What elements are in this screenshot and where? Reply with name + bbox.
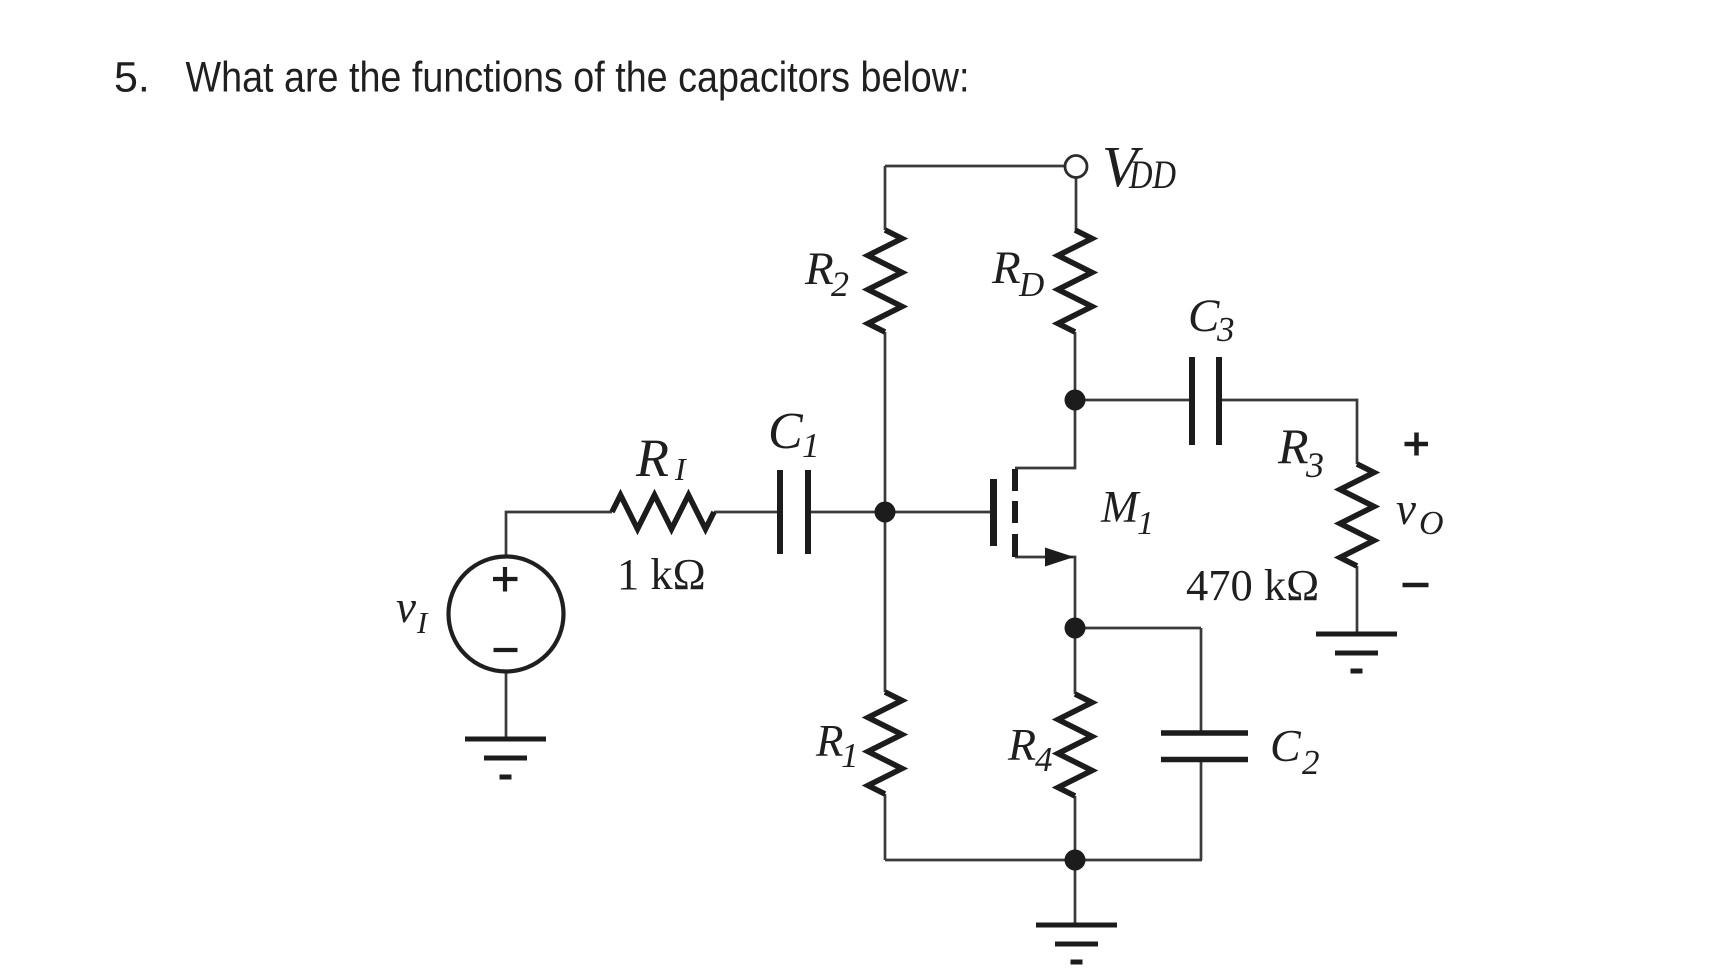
svg-text:R: R <box>804 243 834 295</box>
VDD terminal circle <box>1065 156 1087 178</box>
node gate junction <box>875 502 896 523</box>
svg-text:1 kΩ: 1 kΩ <box>617 549 706 599</box>
svg-text:DD: DD <box>1128 152 1176 197</box>
capacitor C2 plates <box>1161 733 1248 760</box>
svg-text:3: 3 <box>1305 445 1324 485</box>
source vI circle <box>449 557 564 672</box>
resistor R1 <box>868 692 902 794</box>
transistor M1 <box>990 469 1074 567</box>
svg-text:1: 1 <box>841 736 859 775</box>
svg-text:1: 1 <box>1137 505 1154 542</box>
svg-text:M: M <box>1100 482 1141 532</box>
svg-text:2: 2 <box>1302 743 1320 782</box>
svg-text:D: D <box>1018 265 1044 304</box>
resistor RI <box>612 495 714 529</box>
capacitor C3 plates <box>1192 357 1219 445</box>
svg-text:C: C <box>768 403 804 460</box>
svg-text:C: C <box>1270 720 1302 771</box>
wire R4 bottom stem <box>1074 796 1077 860</box>
title question text <box>114 54 970 102</box>
svg-text:C: C <box>1188 290 1220 342</box>
wire C2 bottom stem <box>1200 759 1203 860</box>
svg-text:R: R <box>1007 719 1036 770</box>
node drain junction <box>1065 390 1086 411</box>
wire C1 right plate to gate node <box>811 511 885 514</box>
svg-text:v: v <box>396 582 416 632</box>
wire RI to C1 left plate <box>714 511 777 514</box>
output minus sign <box>1403 583 1429 588</box>
svg-text:I: I <box>674 451 687 487</box>
wire R3 bottom stem to ground <box>1356 566 1359 634</box>
resistor R3 <box>1340 464 1374 566</box>
wire VDD stem down to RD <box>1075 178 1078 230</box>
source arrow <box>1045 548 1074 567</box>
wire gate connection from node to M1 gate <box>885 511 990 514</box>
capacitor C1 plates <box>780 470 808 554</box>
svg-text:v: v <box>1396 484 1416 534</box>
output plus sign <box>1405 433 1429 456</box>
ground at bottom <box>1036 925 1117 962</box>
svg-text:3: 3 <box>1216 310 1235 349</box>
svg-text:5.: 5. <box>114 54 150 102</box>
ground below R3 <box>1316 634 1397 671</box>
svg-text:R: R <box>1277 418 1309 474</box>
wire R1 bottom stem <box>884 794 887 860</box>
svg-text:1: 1 <box>802 426 820 465</box>
wire R2 top stem <box>884 166 887 230</box>
channel dashed line <box>1012 469 1018 557</box>
resistor R2 <box>868 230 902 332</box>
svg-text:I: I <box>416 605 429 640</box>
wire top rail from R2 to VDD terminal <box>885 165 1064 168</box>
resistor R4 <box>1058 694 1092 796</box>
wire vI source bottom lead to ground <box>505 672 508 739</box>
plus sign inside source <box>493 567 518 592</box>
svg-text:What are the functions of the: What are the functions of the capacitors… <box>186 54 970 102</box>
wire node to C3 left plate <box>1075 399 1189 402</box>
wire drain connection to M1 <box>1015 400 1075 468</box>
wire bottom node to ground stem <box>1074 860 1077 925</box>
wire bottom rail <box>885 859 1202 862</box>
svg-text:2: 2 <box>831 264 849 304</box>
wire C3 right plate to R3 top <box>1222 400 1357 464</box>
wire vI source top lead to RI <box>506 512 612 556</box>
svg-text:R: R <box>635 428 669 488</box>
node source junction <box>1065 618 1086 639</box>
svg-text:470 kΩ: 470 kΩ <box>1186 560 1319 610</box>
node bottom junction <box>1065 850 1086 871</box>
ground below vI <box>465 739 546 777</box>
minus sign inside source <box>494 648 518 652</box>
svg-text:R: R <box>991 242 1021 294</box>
resistor RD <box>1058 230 1092 332</box>
wire source connection of M1 down to node <box>1015 557 1075 628</box>
wire R4 top stem <box>1074 628 1077 694</box>
wire source node to C2 branch <box>1075 627 1201 630</box>
gate bar <box>990 479 997 546</box>
svg-text:4: 4 <box>1035 740 1053 779</box>
svg-text:R: R <box>815 716 844 766</box>
wire RD bottom stem to drain node <box>1074 332 1077 400</box>
wire R2 bottom rail through gate node down to R1 <box>884 332 887 692</box>
wire C2 top stem <box>1200 628 1203 733</box>
svg-text:O: O <box>1419 505 1444 542</box>
